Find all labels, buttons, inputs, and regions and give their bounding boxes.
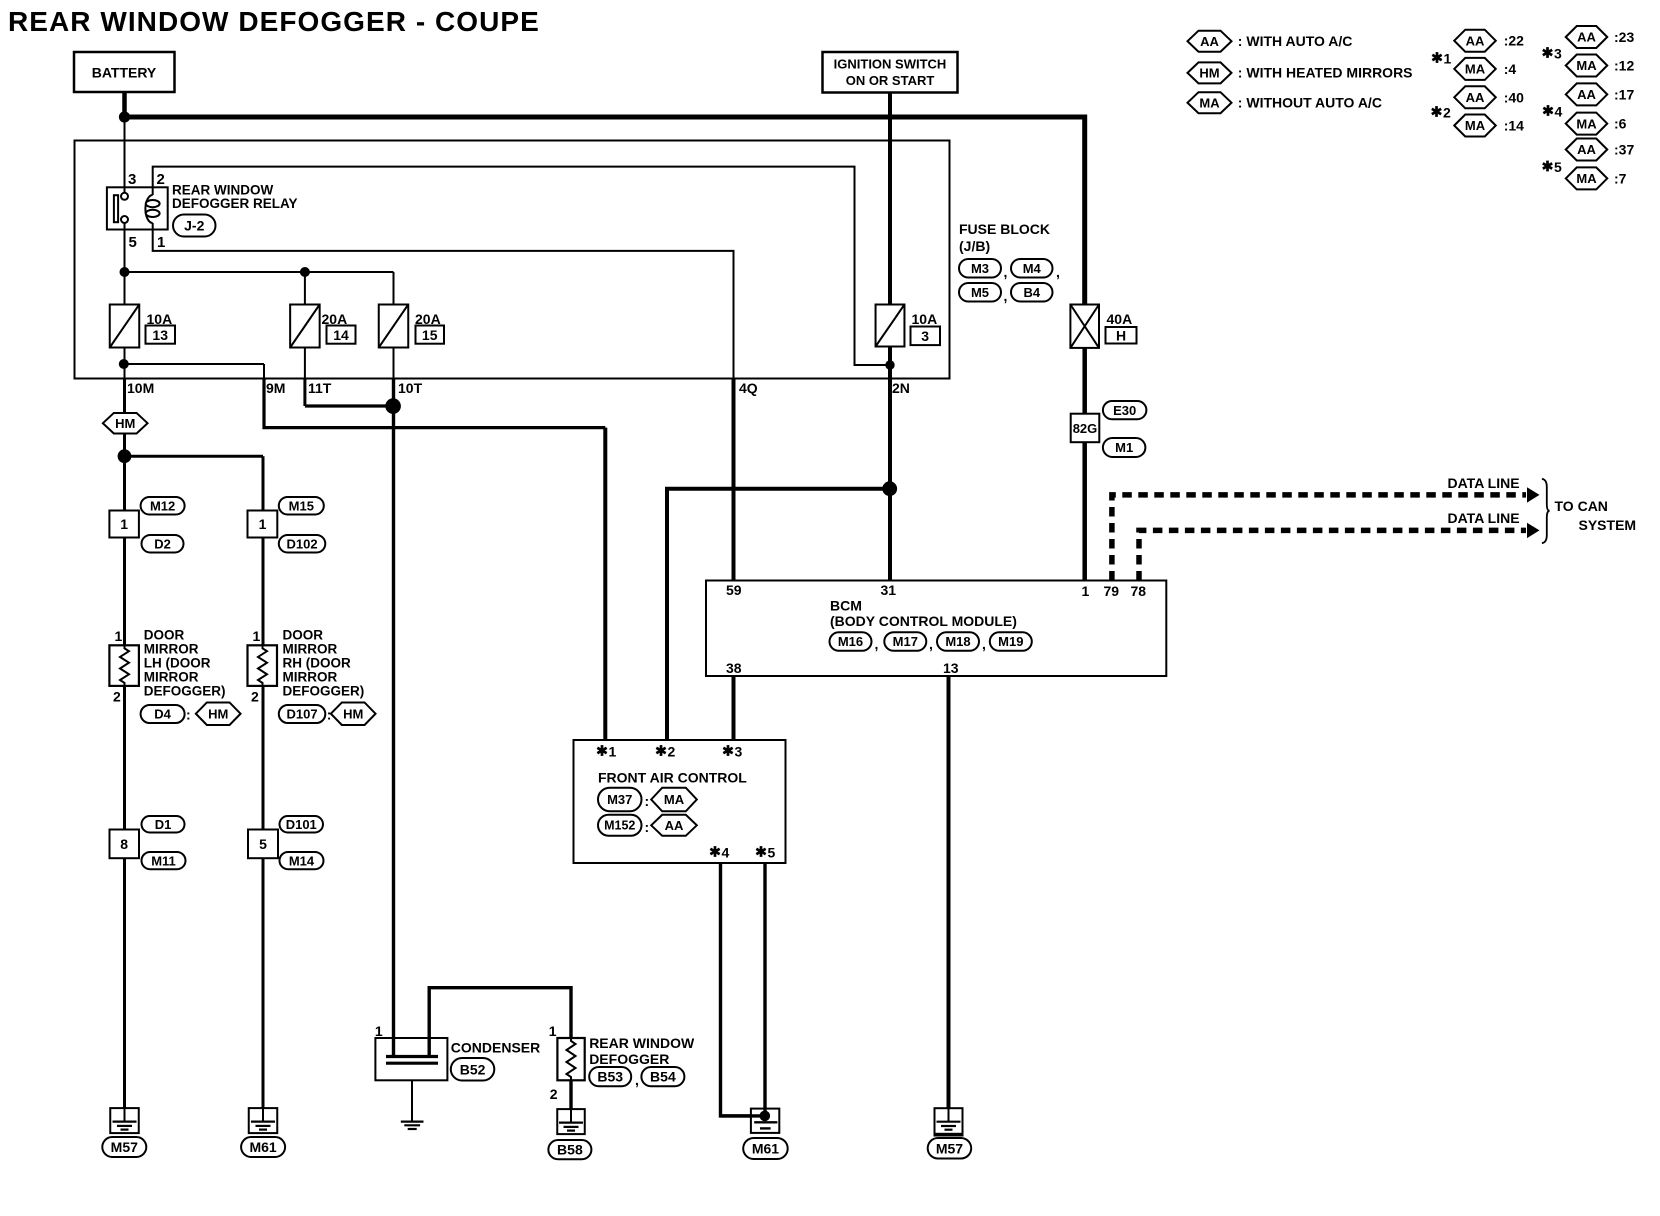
svg-text:REAR WINDOW: REAR WINDOW [589,1035,695,1051]
svg-text:AA: AA [1466,90,1485,105]
svg-text:HM: HM [208,706,228,721]
svg-text:3: 3 [1554,46,1562,62]
svg-text:M11: M11 [151,853,176,868]
svg-text:2: 2 [251,689,259,705]
svg-text:13: 13 [152,327,168,343]
svg-text:5: 5 [129,234,137,251]
svg-text:MIRROR: MIRROR [283,670,338,685]
svg-text:MA: MA [1576,116,1597,131]
svg-text:M61: M61 [752,1141,779,1157]
svg-text:4Q: 4Q [739,380,758,396]
svg-text:M16: M16 [838,634,863,649]
svg-text:1: 1 [375,1023,383,1039]
svg-text:DATA LINE: DATA LINE [1448,475,1520,491]
svg-text:10T: 10T [398,380,423,396]
svg-text:2: 2 [1443,105,1451,121]
svg-text:AA: AA [665,818,684,833]
svg-text:B58: B58 [557,1142,583,1158]
svg-text:DEFOGGER RELAY: DEFOGGER RELAY [172,196,298,211]
svg-text:40A: 40A [1107,311,1133,327]
svg-text:B52: B52 [460,1061,486,1077]
svg-text:H: H [1116,328,1126,344]
svg-text:SYSTEM: SYSTEM [1579,517,1637,533]
svg-text:MA: MA [1465,118,1486,133]
svg-text:MA: MA [1465,62,1486,77]
svg-text:9M: 9M [266,380,285,396]
svg-text:10M: 10M [127,380,154,396]
svg-text:D2: D2 [154,536,171,551]
svg-text:1: 1 [120,516,128,532]
svg-text::: : [186,707,191,723]
svg-text:M61: M61 [249,1139,276,1155]
svg-text:14: 14 [333,327,349,343]
svg-text:MIRROR: MIRROR [283,642,338,657]
svg-text:2N: 2N [892,380,910,396]
svg-text:1: 1 [549,1023,557,1039]
svg-text:MA: MA [1576,171,1597,186]
svg-text:79: 79 [1104,583,1120,599]
svg-text:D107: D107 [287,707,318,722]
svg-text:MA: MA [664,792,685,807]
svg-text:59: 59 [726,582,742,598]
svg-text:1: 1 [1444,51,1452,67]
svg-text:5: 5 [768,845,776,861]
svg-text:E30: E30 [1113,403,1136,418]
svg-text:AA: AA [1466,33,1485,48]
svg-text:J-2: J-2 [184,218,204,234]
svg-text:31: 31 [881,582,897,598]
svg-text:FRONT AIR CONTROL: FRONT AIR CONTROL [598,770,747,786]
svg-text:MA: MA [1576,58,1597,73]
svg-text:MIRROR: MIRROR [144,670,199,685]
svg-text:1: 1 [115,628,123,644]
svg-text:M15: M15 [289,498,314,513]
svg-text:IGNITION SWITCH: IGNITION SWITCH [834,57,947,72]
svg-text:2: 2 [157,171,165,188]
svg-text:HM: HM [115,416,135,431]
svg-text:(J/B): (J/B) [959,238,990,254]
svg-text:DOOR: DOOR [283,628,324,643]
svg-text:DEFOGGER): DEFOGGER) [283,684,365,699]
svg-text:M19: M19 [998,634,1023,649]
svg-text::23: :23 [1614,29,1634,45]
svg-text:4: 4 [1555,104,1563,120]
svg-text:,: , [1004,264,1008,280]
svg-text::12: :12 [1614,58,1634,74]
svg-text:M17: M17 [893,634,918,649]
svg-text:: WITH HEATED MIRRORS: : WITH HEATED MIRRORS [1238,65,1413,81]
svg-text:AA: AA [1577,142,1596,157]
svg-text:TO CAN: TO CAN [1555,498,1608,514]
svg-text:DEFOGGER): DEFOGGER) [144,684,226,699]
svg-text:M1: M1 [1115,440,1133,455]
svg-text:LH (DOOR: LH (DOOR [144,656,211,671]
svg-text:38: 38 [726,660,742,676]
svg-text:,: , [929,636,933,652]
svg-text:MA: MA [1199,95,1220,110]
svg-text:3: 3 [128,171,136,188]
svg-text:1: 1 [259,516,267,532]
svg-text:ON OR START: ON OR START [846,73,935,88]
svg-text:5: 5 [1554,159,1562,175]
svg-text::14: :14 [1504,118,1524,134]
svg-text::40: :40 [1504,89,1524,105]
svg-text:5: 5 [259,836,267,852]
svg-text::4: :4 [1504,61,1517,77]
svg-text:CONDENSER: CONDENSER [451,1040,540,1056]
svg-text:REAR WINDOW DEFOGGER - COUPE: REAR WINDOW DEFOGGER - COUPE [8,6,540,37]
svg-text:M14: M14 [289,853,315,868]
svg-text:RH (DOOR: RH (DOOR [283,656,351,671]
svg-text:MIRROR: MIRROR [144,642,199,657]
svg-text:3: 3 [735,744,743,760]
svg-text:11T: 11T [308,380,332,396]
svg-text:M37: M37 [607,792,632,807]
svg-text:M12: M12 [150,498,175,513]
svg-text:8: 8 [120,836,128,852]
svg-text:M4: M4 [1023,261,1042,276]
svg-text::22: :22 [1504,33,1524,49]
svg-text:,: , [875,636,879,652]
svg-text:15: 15 [422,327,438,343]
svg-text:,: , [982,636,986,652]
svg-text:4: 4 [722,845,730,861]
svg-text:,: , [1056,264,1060,280]
svg-text:HM: HM [343,706,363,721]
svg-text:1: 1 [157,234,165,251]
svg-text:2: 2 [113,689,121,705]
svg-text:M3: M3 [971,261,989,276]
svg-text:2: 2 [668,744,676,760]
svg-text:M5: M5 [971,285,989,300]
svg-text:AA: AA [1200,34,1219,49]
svg-text:BATTERY: BATTERY [92,65,157,81]
svg-text::6: :6 [1614,116,1627,132]
svg-text:DEFOGGER: DEFOGGER [589,1051,669,1067]
svg-text::37: :37 [1614,142,1634,158]
svg-text:D102: D102 [287,536,318,551]
svg-text:M57: M57 [111,1139,138,1155]
svg-text:13: 13 [943,660,959,676]
svg-text:3: 3 [921,328,929,344]
svg-text:(BODY CONTROL MODULE): (BODY CONTROL MODULE) [830,613,1017,629]
svg-text::7: :7 [1614,170,1627,186]
svg-text:1: 1 [609,744,617,760]
svg-text:B4: B4 [1023,285,1040,300]
svg-text:BCM: BCM [830,598,862,614]
svg-text::17: :17 [1614,86,1634,102]
svg-text:AA: AA [1577,30,1596,45]
svg-text:,: , [635,1072,639,1088]
svg-text::: : [645,793,650,809]
svg-text:HM: HM [1199,66,1219,81]
svg-text:: WITHOUT AUTO A/C: : WITHOUT AUTO A/C [1238,95,1382,111]
svg-text:D1: D1 [155,817,172,832]
svg-text:AA: AA [1577,87,1596,102]
svg-text:B53: B53 [597,1069,623,1085]
svg-text:M18: M18 [945,634,970,649]
svg-text:82G: 82G [1073,421,1098,436]
svg-text:M57: M57 [936,1140,963,1156]
svg-text:: WITH AUTO A/C: : WITH AUTO A/C [1238,33,1353,49]
svg-text:10A: 10A [912,311,938,327]
svg-text:M152: M152 [604,819,635,833]
svg-text:DATA LINE: DATA LINE [1448,510,1520,526]
svg-text:D101: D101 [286,817,317,832]
svg-text:B54: B54 [650,1069,676,1085]
svg-text:1: 1 [253,628,261,644]
svg-text::: : [645,819,650,835]
svg-text:,: , [1004,288,1008,304]
svg-text:78: 78 [1131,583,1147,599]
svg-text:2: 2 [550,1086,558,1102]
svg-text:D4: D4 [154,707,171,722]
svg-text:DOOR: DOOR [144,628,185,643]
svg-text:FUSE BLOCK: FUSE BLOCK [959,221,1050,237]
svg-text:1: 1 [1082,583,1090,599]
